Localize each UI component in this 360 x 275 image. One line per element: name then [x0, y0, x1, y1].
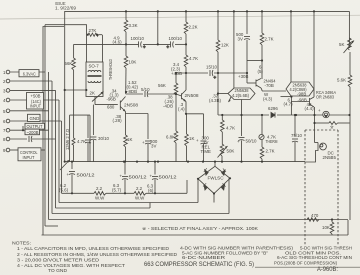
svg-text:680: 680	[107, 105, 115, 110]
svg-text:-98B: -98B	[298, 97, 307, 102]
svg-text:(4.6): (4.6)	[113, 40, 123, 45]
svg-text:INPUT: INPUT	[30, 104, 41, 109]
svg-text:100/10: 100/10	[169, 36, 183, 41]
svg-text:(.28): (.28)	[113, 118, 123, 123]
svg-text:(.4): (.4)	[178, 107, 185, 112]
svg-text:+4DB: +4DB	[171, 71, 182, 76]
svg-text:2N5B5: 2N5B5	[323, 155, 337, 160]
svg-text:4.7K: 4.7K	[189, 56, 198, 61]
svg-text:500/12: 500/12	[159, 175, 178, 180]
svg-text:-98B: -98B	[297, 91, 306, 96]
svg-text:1 - ALL CAPACITORS IN MFD, UNL: 1 - ALL CAPACITORS IN MFD, UNLESS OTHERW…	[17, 246, 170, 251]
svg-text:-4DB: -4DB	[163, 104, 173, 109]
svg-text:-96B: -96B	[107, 97, 116, 102]
svg-text:+: +	[120, 174, 123, 179]
svg-text:470: 470	[311, 213, 319, 218]
svg-text:56K: 56K	[65, 61, 73, 66]
svg-text:500/12: 500/12	[129, 175, 148, 180]
svg-text:27K: 27K	[89, 28, 97, 33]
svg-text:※ - SELECTED AT FINAL ASS'Y -: ※ - SELECTED AT FINAL ASS'Y - APPROX. 10…	[142, 226, 259, 231]
svg-text:1K: 1K	[127, 137, 132, 142]
svg-text:30/10: 30/10	[98, 136, 110, 141]
svg-text:+: +	[143, 45, 146, 50]
svg-text:3V: 3V	[238, 37, 243, 42]
svg-text:W.W: W.W	[135, 196, 145, 201]
svg-text:5.6K: 5.6K	[337, 78, 346, 83]
svg-text:-8DB: -8DB	[127, 89, 137, 94]
svg-text:12K: 12K	[221, 43, 229, 48]
svg-text:(6): (6)	[148, 188, 154, 193]
svg-text:+: +	[167, 45, 170, 50]
svg-text:5K: 5K	[339, 42, 344, 47]
svg-text:1K: 1K	[189, 136, 194, 141]
svg-text:OR 2N683: OR 2N683	[316, 95, 334, 100]
svg-text:TIME: TIME	[201, 149, 212, 154]
svg-text:4-DC WITH SIG·NUMBER WITH PARE: 4-DC WITH SIG·NUMBER WITH PARENTHESIS)	[180, 245, 294, 250]
svg-text:75/10: 75/10	[291, 133, 303, 138]
svg-text:2K: 2K	[90, 91, 95, 96]
svg-text:3V: 3V	[151, 144, 156, 149]
svg-text:56K: 56K	[158, 83, 166, 88]
svg-text:+: +	[67, 172, 70, 177]
svg-text:(5): (5)	[258, 69, 264, 74]
svg-text:SO-7: SO-7	[89, 64, 100, 69]
svg-text:(4.7): (4.7)	[284, 102, 294, 107]
svg-text:INPUT: INPUT	[23, 155, 35, 160]
svg-text:100/10: 100/10	[131, 36, 145, 41]
svg-text:THRESHOLD: THRESHOLD	[108, 59, 113, 80]
svg-text:2.2: 2.2	[136, 186, 143, 191]
svg-text:+: +	[237, 139, 240, 144]
svg-text:6-AC SIG·THRESHOLD CONT MIN: 6-AC SIG·THRESHOLD CONT MIN	[277, 255, 352, 260]
svg-text:4 - ALL DC VOLTAGES MEG. WITH: 4 - ALL DC VOLTAGES MEG. WITH RESPECT	[17, 263, 125, 268]
svg-text:4.7K: 4.7K	[226, 126, 235, 131]
svg-text:4.7K: 4.7K	[77, 139, 86, 144]
svg-text:+: +	[318, 108, 321, 113]
svg-text:+: +	[214, 75, 217, 80]
svg-text:2.2K: 2.2K	[189, 25, 198, 30]
svg-text:2 - ALL RESISTORS IN OHMS, 1/4: 2 - ALL RESISTORS IN OHMS, 1/4W UNLESS O…	[17, 252, 178, 257]
svg-text:4.2(5.6B): 4.2(5.6B)	[232, 93, 250, 98]
svg-text:W.W: W.W	[95, 196, 105, 201]
svg-text:2.7K: 2.7K	[265, 37, 274, 42]
svg-text:(5.6): (5.6)	[59, 188, 69, 193]
svg-text:+: +	[196, 138, 199, 143]
svg-text:FWLSC: FWLSC	[208, 176, 224, 181]
svg-text:3.3K: 3.3K	[129, 23, 138, 28]
svg-text:15/10: 15/10	[206, 65, 218, 70]
svg-text:5-DC WITH SIG·THRESH: 5-DC WITH SIG·THRESH	[300, 245, 352, 250]
svg-text:5/10: 5/10	[141, 87, 150, 92]
svg-text:NOTES:: NOTES:	[12, 241, 31, 246]
svg-text:6-DC·NUMBER: 6-DC·NUMBER	[182, 255, 226, 260]
svg-text:(4.4): (4.4)	[305, 106, 315, 111]
svg-text:663 COMPRESSOR SCHEMATIC (FIG.: 663 COMPRESSOR SCHEMATIC (FIG. 5)	[144, 261, 254, 268]
svg-text:2.2: 2.2	[96, 186, 103, 191]
svg-text:OUTPUT: OUTPUT	[27, 124, 43, 129]
svg-text:(4.3): (4.3)	[263, 97, 273, 102]
svg-text:-70B: -70B	[265, 83, 274, 88]
svg-text:2N508: 2N508	[124, 103, 139, 108]
svg-text:※: ※	[330, 124, 334, 129]
svg-text:POS.(200B OF COMPRESSION): POS.(200B OF COMPRESSION)	[274, 260, 337, 265]
svg-text:+: +	[150, 174, 153, 179]
svg-text:2.7K: 2.7K	[266, 149, 275, 154]
svg-text:3 - 20,000 Ω/VOLT METER USED: 3 - 20,000 Ω/VOLT METER USED	[17, 257, 100, 262]
svg-text:12M6 2 T.O: 12M6 2 T.O	[65, 128, 70, 150]
svg-text:6.3VAC: 6.3VAC	[23, 71, 36, 76]
svg-text:GND: GND	[30, 116, 40, 121]
svg-text:1. 9/22/69: 1. 9/22/69	[55, 6, 77, 11]
svg-text:+30B: +30B	[238, 74, 248, 79]
svg-text:+: +	[142, 140, 145, 145]
svg-text:(5.7): (5.7)	[112, 188, 122, 193]
svg-text:6.8K: 6.8K	[166, 135, 175, 140]
svg-text:A-960B:: A-960B:	[317, 267, 338, 273]
svg-text:500/12: 500/12	[77, 173, 96, 178]
svg-text:TO GND: TO GND	[48, 268, 68, 273]
svg-text:50/10: 50/10	[246, 139, 258, 144]
svg-text:2N508: 2N508	[185, 93, 200, 98]
svg-text:THERM: THERM	[266, 139, 278, 144]
svg-text:(4.3B): (4.3B)	[209, 98, 221, 103]
svg-text:50K: 50K	[227, 149, 235, 154]
svg-text:~200B: ~200B	[27, 130, 39, 135]
svg-text:10K: 10K	[129, 60, 137, 65]
svg-text:6296: 6296	[268, 106, 278, 111]
svg-text:+: +	[88, 140, 91, 145]
svg-text:10K: 10K	[322, 225, 330, 230]
